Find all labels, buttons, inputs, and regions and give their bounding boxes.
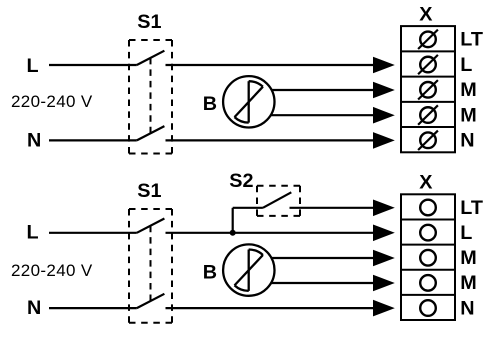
svg-text:L: L xyxy=(27,222,39,244)
svg-text:LT: LT xyxy=(460,29,483,51)
svg-text:220-240 V: 220-240 V xyxy=(11,261,93,280)
svg-text:S2: S2 xyxy=(229,170,253,192)
svg-text:N: N xyxy=(27,130,41,152)
svg-text:X: X xyxy=(419,171,433,193)
svg-text:S1: S1 xyxy=(137,180,161,202)
svg-text:M: M xyxy=(460,104,476,126)
svg-text:L: L xyxy=(27,55,39,77)
svg-text:L: L xyxy=(460,54,472,76)
svg-text:M: M xyxy=(460,79,476,101)
svg-text:N: N xyxy=(460,297,474,319)
svg-text:N: N xyxy=(460,130,474,152)
svg-text:M: M xyxy=(460,272,476,294)
svg-text:N: N xyxy=(27,297,41,319)
svg-text:B: B xyxy=(203,93,217,115)
svg-text:LT: LT xyxy=(460,197,483,219)
svg-text:B: B xyxy=(203,262,217,284)
svg-text:S1: S1 xyxy=(137,11,161,33)
svg-text:X: X xyxy=(419,3,433,25)
svg-text:220-240 V: 220-240 V xyxy=(11,92,93,111)
svg-text:M: M xyxy=(460,247,476,269)
svg-text:L: L xyxy=(460,222,472,244)
